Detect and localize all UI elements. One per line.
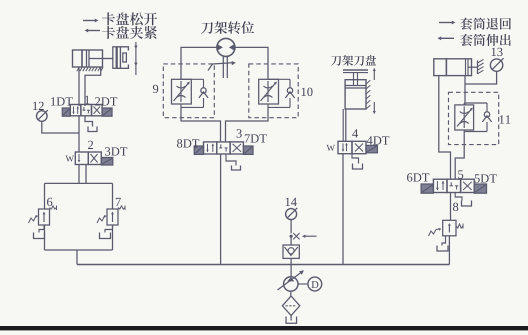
- label 1: [85, 96, 89, 104]
- solenoid 1DT: [62, 108, 70, 116]
- valve U4 right envelope: [352, 141, 366, 153]
- wire box10 to valve3: [226, 107, 269, 141]
- wire gauge14 down: [290, 220, 292, 234]
- drain valve3: [226, 154, 236, 166]
- tank valve 8: [437, 246, 448, 252]
- wire sleeve top split: [463, 103, 465, 105]
- label sleeve-extend 套筒伸出: [460, 34, 511, 46]
- wire rejoin 9: [180, 104, 182, 107]
- cylinder turret-disc stem: [353, 73, 355, 86]
- valve U3 right envelope: [230, 142, 243, 154]
- wire sleeve rod side: [464, 76, 466, 105]
- wire loop top: [45, 182, 113, 184]
- wire valve2 A to loop: [78, 165, 80, 184]
- wire motor left: [181, 47, 217, 79]
- coupling shaft: [298, 283, 308, 285]
- piston rod sleeve: [468, 66, 478, 68]
- label 7: [116, 198, 121, 206]
- label 14: [286, 198, 297, 206]
- pressure valve 8: [443, 220, 456, 236]
- label 13: [492, 48, 503, 56]
- check valve 11: [486, 103, 488, 112]
- enclosure 9: [163, 64, 214, 118]
- relief valve 7: [107, 209, 118, 225]
- solenoid 6DT: [421, 184, 433, 193]
- pressure gauge 14: [286, 209, 297, 220]
- valve U3 centre envelope: [217, 142, 230, 154]
- spring W valve2: [66, 156, 74, 162]
- wire motor right: [235, 47, 268, 79]
- arrow chuck-clamp: [88, 30, 100, 32]
- arrow turret down: [373, 102, 375, 114]
- wire loop left lower: [44, 225, 46, 250]
- tank valve5: [462, 201, 472, 207]
- arrow sleeve-extend: [441, 37, 454, 39]
- hatch turret-disc guide: [366, 80, 370, 84]
- drain valve4: [352, 154, 359, 164]
- label chuck-clamp 卡盘夹紧: [102, 26, 157, 39]
- tank valve 7: [100, 233, 111, 239]
- wire gauge13 to rod side: [465, 71, 497, 84]
- label 刀架转位: [201, 21, 254, 34]
- wire valve4 P to main: [342, 154, 344, 265]
- valve U2 left envelope: [75, 152, 88, 165]
- pressure gauge 12: [37, 111, 48, 122]
- solenoid 2DT: [102, 108, 112, 116]
- tank suction: [286, 317, 297, 324]
- enclosure 10: [249, 64, 298, 118]
- throttle valve 10: [259, 79, 279, 104]
- piston rod chuck: [103, 58, 114, 60]
- solenoid 3DT: [101, 158, 113, 166]
- label 6: [47, 198, 52, 206]
- valve U3 left envelope: [204, 142, 217, 154]
- wire rejoin 11: [463, 130, 465, 132]
- pump P1: [284, 277, 298, 291]
- relief valve 6: [39, 209, 50, 225]
- wire loop bottom: [45, 249, 113, 251]
- pilot valve 6: [29, 216, 37, 223]
- piston chuck: [86, 50, 88, 67]
- wire main pressure line: [77, 264, 449, 266]
- enclosure 11: [449, 92, 499, 144]
- cylinder turret-disc barrel: [345, 80, 366, 109]
- wire split 9: [181, 78, 204, 80]
- motor triangle left: [217, 44, 223, 51]
- throttle valve 9: [172, 79, 192, 104]
- label chuck-release 卡盘松开: [102, 12, 157, 25]
- spring valve 8: [456, 224, 463, 228]
- wire box9 to valve3: [181, 107, 221, 141]
- wire T valve1: [85, 116, 93, 127]
- pressure gauge 13: [490, 59, 502, 71]
- chuck jaw body: [117, 47, 128, 69]
- wire box11 to valve5: [455, 132, 464, 180]
- motor triangle right: [229, 44, 235, 51]
- label 9: [153, 85, 158, 93]
- label 4DT: [367, 136, 389, 144]
- label 5: [458, 170, 463, 178]
- label 4: [352, 129, 358, 137]
- wire sleeve cap side: [439, 76, 451, 179]
- wire loop left upper: [44, 183, 46, 209]
- label 2: [88, 141, 93, 149]
- drain valve 6: [39, 225, 44, 233]
- pilot valve 8: [429, 230, 437, 237]
- wire cylinder4 to valve4: [345, 109, 347, 141]
- label 3DT: [105, 147, 127, 155]
- drain valve5: [455, 193, 462, 201]
- solenoid 8DT: [194, 146, 203, 154]
- motor rotation arrow: [208, 63, 232, 71]
- electric motor D: [308, 277, 322, 291]
- wire valve3 P to main: [220, 154, 222, 265]
- wire filter to tank: [290, 316, 292, 321]
- cylinder sleeve cap: [434, 59, 447, 76]
- wire check to pump: [290, 258, 292, 277]
- solenoid 5DT: [474, 184, 486, 193]
- wire loop right lower: [112, 225, 114, 250]
- chuck flange: [113, 47, 116, 69]
- filter F1: [282, 296, 299, 316]
- motor shaft lines: [222, 57, 224, 78]
- valve U5 centre envelope: [447, 179, 461, 192]
- label 2DT: [95, 97, 117, 105]
- label 8: [453, 203, 458, 211]
- wire P valve1-valve2: [78, 116, 80, 152]
- spring valve 6: [50, 206, 57, 209]
- spring valve 7: [118, 206, 125, 209]
- valve U5 left envelope: [433, 179, 447, 192]
- cylinder chuck (left cap): [73, 50, 83, 67]
- valve U4 left envelope: [338, 141, 352, 153]
- mounting hatch chuck cylinder: [77, 68, 79, 72]
- drain valve 7: [105, 225, 113, 233]
- wire isolator to check: [290, 238, 292, 245]
- spring W valve4: [327, 145, 335, 151]
- check valve 9: [203, 79, 205, 87]
- wire loop right upper: [112, 183, 114, 209]
- cylinder turret-disc top bar: [343, 69, 368, 71]
- hydraulic motor turret: [217, 38, 235, 56]
- gauge isolator valve: [290, 235, 293, 238]
- valve U2 right envelope: [88, 152, 101, 165]
- wire split 11: [464, 102, 487, 104]
- cylinder chuck (barrel): [82, 50, 103, 67]
- pump variable arrow: [278, 272, 303, 290]
- arrow chuck travel: [135, 42, 137, 75]
- wire chuck B: [85, 67, 101, 106]
- cylinder sleeve barrel: [446, 59, 471, 76]
- label 5DT: [475, 174, 497, 182]
- label 8DT: [177, 139, 199, 147]
- pilot valve 7: [97, 216, 105, 223]
- wire split 10: [268, 78, 290, 80]
- label sleeve-retract 套筒退回: [460, 18, 511, 30]
- valve U1 right envelope: [92, 105, 103, 116]
- arrow chuck-release: [83, 20, 95, 22]
- drain valve 8: [442, 236, 446, 246]
- label 7DT: [245, 134, 267, 142]
- piston sleeve: [465, 59, 467, 76]
- wire gauge 12 to P: [42, 121, 79, 133]
- label 12: [33, 102, 44, 110]
- label 6DT: [407, 173, 429, 181]
- label 1DT: [51, 97, 73, 105]
- valve U5 right envelope: [461, 179, 475, 192]
- label 3: [237, 129, 242, 137]
- wire chuck A: [78, 67, 80, 106]
- label 10: [302, 88, 313, 96]
- tank valve4: [353, 164, 363, 170]
- chuck jaw inner bar: [123, 53, 127, 62]
- check valve boxed: [283, 245, 299, 258]
- label 刀架刀盘: [331, 55, 376, 66]
- wire valve5 P to valve8: [450, 193, 452, 221]
- solenoid 4DT: [366, 145, 377, 152]
- wire pump to filter: [290, 291, 292, 296]
- wire rejoin 10: [267, 104, 269, 107]
- check valve 10: [289, 79, 291, 87]
- valve U1 centre envelope: [81, 105, 92, 116]
- tank valve 6: [34, 233, 45, 239]
- page rule: [0, 326, 528, 330]
- throttle valve 11: [455, 105, 474, 130]
- solenoid 7DT: [243, 146, 253, 154]
- piston turret-disc: [345, 85, 366, 87]
- label 11: [500, 115, 511, 123]
- valve U1 left envelope: [70, 105, 81, 116]
- tank T valve1: [88, 127, 97, 132]
- wire valve2 T to loop: [85, 165, 87, 184]
- arrow sleeve-retract: [439, 22, 452, 24]
- wire valve8 to main: [448, 236, 450, 265]
- arrow turret up: [373, 69, 375, 81]
- wire loop to main: [76, 250, 78, 265]
- tank valve3: [232, 166, 241, 171]
- wall hatch sleeve: [477, 61, 479, 75]
